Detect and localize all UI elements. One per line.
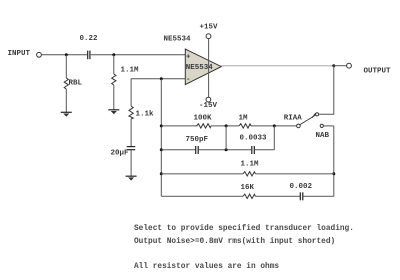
- svg-text:+: +: [186, 54, 191, 62]
- wire row1 right to switch pole: [251, 125, 297, 127]
- resistor 100K: [197, 124, 212, 128]
- node junction RBL: [65, 53, 68, 56]
- resistor 1M: [239, 124, 251, 128]
- capacitor 0.002: [300, 192, 303, 200]
- node junction R 1.1M shunt: [112, 53, 115, 56]
- svg-text:OUTPUT: OUTPUT: [364, 68, 392, 76]
- svg-text:NE5534: NE5534: [164, 36, 192, 44]
- wire row1 mid: [211, 125, 239, 127]
- svg-text:0.002: 0.002: [290, 183, 313, 191]
- wire row4: [161, 195, 243, 197]
- resistor RBL: [64, 78, 68, 89]
- node junction row1 mid: [225, 124, 228, 127]
- svg-text:RBL: RBL: [69, 79, 83, 87]
- switch lever barb: [312, 113, 316, 118]
- resistor 1.1k: [129, 106, 133, 119]
- capacitor 750pF: [196, 146, 199, 154]
- svg-text:-15V: -15V: [199, 102, 218, 110]
- svg-text:0.0033: 0.0033: [240, 135, 268, 143]
- wire RBL bottom: [65, 89, 67, 112]
- node OUTPUT terminal: [347, 63, 352, 68]
- svg-text:100K: 100K: [194, 115, 213, 123]
- node junction row3 left: [160, 172, 163, 175]
- wire 20uF to ground: [130, 150, 132, 176]
- wire right feedback bus: [333, 126, 335, 196]
- svg-text:+15V: +15V: [200, 24, 219, 32]
- node +15V terminal: [206, 34, 211, 39]
- ground (20uF): [126, 176, 137, 180]
- wire left feedback bus: [160, 79, 162, 197]
- capacitor 0.0033: [252, 146, 255, 154]
- wire row2: [161, 149, 195, 151]
- switch pole circle: [297, 124, 301, 128]
- ground (RBL): [61, 112, 72, 116]
- wire row1 left: [161, 125, 197, 127]
- svg-text:-: -: [186, 76, 191, 84]
- op-amp U1 NE5534: [185, 49, 221, 85]
- wire inverting input: [131, 79, 185, 106]
- node junction row3 right: [332, 172, 335, 175]
- node junction row1 right: [273, 124, 276, 127]
- wire 1.1k to 20uF: [130, 119, 132, 146]
- wire cap to op-amp +: [91, 54, 186, 56]
- svg-text:INPUT: INPUT: [8, 50, 31, 58]
- node junction row2 mid: [225, 148, 228, 151]
- svg-text:NAB: NAB: [316, 132, 330, 140]
- capacitor C 0.22: [88, 51, 90, 60]
- svg-text:NE5534: NE5534: [186, 64, 214, 72]
- svg-text:1.1k: 1.1k: [136, 111, 155, 119]
- svg-text:0.22: 0.22: [80, 35, 99, 43]
- resistor 1.1M (row3): [243, 172, 255, 176]
- wire NAB contact to right bus: [323, 125, 333, 127]
- wire V+: [208, 39, 210, 98]
- wire RBL top: [65, 55, 67, 78]
- node junction row1 left: [160, 124, 163, 127]
- wire RIAA contact to output junction: [319, 66, 334, 115]
- switch contact NAB: [320, 124, 323, 127]
- svg-text:1.1M: 1.1M: [121, 67, 140, 75]
- capacitor 20uF: [127, 147, 135, 150]
- svg-text:20µF: 20µF: [111, 150, 130, 158]
- wire to output terminal: [334, 65, 347, 67]
- node -15V terminal: [206, 97, 211, 102]
- resistor 1.1M (input shunt): [112, 74, 116, 85]
- wire right vertical row1-row2: [273, 126, 275, 150]
- svg-text:All resistor values are in ohm: All resistor values are in ohms: [134, 263, 279, 271]
- node INPUT terminal: [37, 52, 42, 57]
- svg-text:1.1M: 1.1M: [241, 161, 260, 169]
- wire mid vertical: [225, 126, 227, 150]
- node output junction: [332, 64, 335, 67]
- svg-text:750pF: 750pF: [186, 136, 209, 144]
- node junction row2 left: [160, 148, 163, 151]
- svg-text:Output Noise>=0.8mV rms(with i: Output Noise>=0.8mV rms(with input short…: [134, 238, 335, 246]
- svg-text:16K: 16K: [241, 184, 255, 192]
- wire row3: [161, 173, 243, 175]
- switch contact RIAA: [316, 113, 319, 116]
- ground (input shunt): [108, 110, 119, 114]
- node junction left bus top: [160, 77, 163, 80]
- wire input to cap: [42, 54, 88, 56]
- switch lever: [300, 115, 316, 125]
- svg-text:Select to provide specified tr: Select to provide specified transducer l…: [134, 225, 354, 233]
- svg-text:1M: 1M: [239, 115, 249, 123]
- wire 1.1M bottom: [113, 85, 115, 110]
- resistor 16K: [243, 194, 255, 198]
- svg-text:RIAA: RIAA: [284, 114, 303, 122]
- wire 1.1M top: [113, 55, 115, 74]
- wire output (gray): [221, 65, 333, 67]
